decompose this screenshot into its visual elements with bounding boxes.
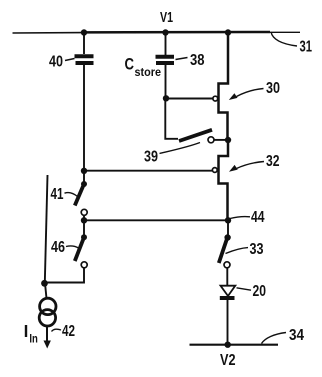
node: junction of C40 with rail bbox=[81, 29, 87, 35]
svg-text:V1: V1 bbox=[160, 9, 173, 26]
capacitor C40 bbox=[75, 56, 94, 63]
switch 46 (blade, pivot dot, contact) bbox=[45, 220, 88, 282]
node: junction of switch 39 / Q30 source / Q32 drain bbox=[225, 137, 231, 143]
wire from switch 41 bottom to node 44 bbox=[84, 219, 228, 221]
wire gate of transistor 30 bbox=[166, 98, 213, 100]
svg-text:34: 34 bbox=[289, 327, 304, 344]
svg-text:V2: V2 bbox=[220, 352, 236, 369]
label 39 bbox=[144, 143, 200, 166]
wire from rail to capacitor 40 bbox=[83, 32, 85, 54]
wire from switch 33 to diode 20 bbox=[226, 268, 228, 285]
node: junction switch 41 top / C40 bbox=[81, 168, 87, 174]
node: gate of Q30 / C_store junction bbox=[163, 95, 169, 101]
label I_in bbox=[25, 325, 38, 346]
label 38 bbox=[176, 52, 205, 69]
wire from node down to current source bbox=[45, 283, 47, 299]
label V2 bbox=[220, 352, 236, 369]
svg-text:44: 44 bbox=[251, 209, 265, 226]
node 44 bbox=[225, 217, 250, 224]
wire left vertical stub bbox=[45, 175, 48, 283]
svg-text:46: 46 bbox=[51, 239, 65, 256]
svg-text:38: 38 bbox=[190, 52, 205, 69]
svg-text:C: C bbox=[125, 55, 135, 74]
wire from capacitor 38 down to gate node bbox=[165, 65, 167, 99]
label 31 bbox=[271, 32, 312, 56]
switch 39 (blade and contact) bbox=[179, 130, 225, 143]
node: junction of Q30 drain with rail bbox=[225, 29, 231, 35]
label 46 bbox=[51, 239, 79, 256]
label 40 bbox=[49, 54, 75, 71]
svg-text:32: 32 bbox=[266, 153, 280, 170]
switch 41 (blade, pivot dot, contact) bbox=[75, 171, 87, 220]
svg-text:In: In bbox=[29, 332, 38, 346]
wire from capacitor 40 down to node of switch 41 bbox=[83, 65, 85, 171]
current source 42 (two circles) bbox=[39, 298, 56, 326]
node: junction of C38 with rail bbox=[162, 29, 168, 35]
label 33 bbox=[226, 241, 264, 258]
wire from rail to capacitor 38 bbox=[165, 32, 167, 55]
diode 20 (triangle + cathode bar) bbox=[220, 286, 236, 298]
wire and arrow of current source output bbox=[44, 326, 51, 349]
capacitor C38 (C_store) bbox=[156, 57, 175, 63]
svg-text:30: 30 bbox=[266, 80, 280, 97]
svg-text:20: 20 bbox=[253, 283, 267, 300]
label 41 bbox=[51, 186, 78, 203]
wire from node 44 down to switch 33 bbox=[227, 220, 229, 237]
label C_store bbox=[125, 55, 162, 80]
switch 33 (pivot dot, blade, contact) bbox=[219, 234, 231, 267]
label 44 bbox=[251, 209, 265, 226]
node: junction switch 41 bottom / wire to node 44 bbox=[81, 217, 87, 223]
transistor Q30 (PMOS, gate bubble) bbox=[213, 32, 228, 140]
svg-text:42: 42 bbox=[62, 323, 75, 340]
wire bottom rail (V2) bbox=[190, 344, 279, 346]
node: junction of I_in with switch 46 wire bbox=[41, 280, 48, 287]
node: junction of diode branch with bottom rail bbox=[225, 342, 231, 348]
label 42 bbox=[52, 323, 76, 340]
wire top rail (V1 supply) bbox=[13, 32, 301, 33]
svg-text:33: 33 bbox=[250, 241, 264, 258]
wire from diode to bottom rail bbox=[227, 300, 229, 345]
label 20 bbox=[237, 283, 267, 300]
wire gate of transistor 32 (from switch 41 node) bbox=[84, 170, 212, 172]
label 32 with arrow bbox=[229, 153, 280, 172]
transistor Q32 (PMOS, gate bubble) bbox=[212, 140, 228, 220]
svg-text:39: 39 bbox=[144, 149, 158, 166]
svg-text:31: 31 bbox=[300, 39, 313, 56]
label 30 with arrow bbox=[229, 80, 280, 100]
label 34 bbox=[262, 327, 305, 344]
svg-text:41: 41 bbox=[51, 186, 64, 203]
label V1 bbox=[160, 9, 173, 26]
svg-text:40: 40 bbox=[49, 54, 63, 71]
wire from C_store node down to switch 39 bbox=[165, 99, 178, 139]
svg-text:store: store bbox=[135, 65, 162, 79]
